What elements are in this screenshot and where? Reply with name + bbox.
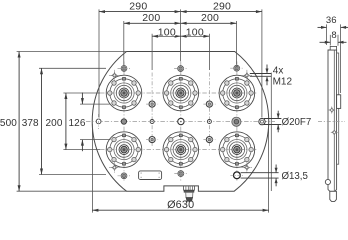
dim 290 left (99, 1, 181, 14)
boss A1 (106, 75, 142, 111)
dim diameter 20F7 (264, 111, 311, 133)
bottom tab (184, 186, 195, 201)
svg-text:4x: 4x (273, 66, 284, 77)
side view thin strip (337, 53, 339, 164)
svg-text:200: 200 (142, 12, 160, 24)
mid hole M4 (203, 137, 215, 143)
mid hole M2 (203, 101, 215, 107)
dim 8 (320, 30, 347, 46)
svg-text:Ø630: Ø630 (167, 199, 194, 211)
leader vertical line x=271.3 (270, 73, 272, 191)
gray hole under boss A3 (232, 117, 241, 126)
horizontal centerline (86, 121, 275, 123)
side view boss block (337, 95, 341, 109)
boss B1 (106, 132, 142, 168)
svg-text:100: 100 (186, 27, 204, 39)
extension line x=92.4 plate left (91, 124, 93, 213)
svg-text:Ø20F7: Ø20F7 (282, 117, 312, 128)
M12 hole S2 (241, 70, 252, 81)
boss column centerline x=124 (123, 62, 125, 182)
side view body (328, 50, 337, 191)
svg-text:378: 378 (22, 118, 39, 129)
svg-text:36: 36 (326, 15, 337, 26)
svg-text:500: 500 (0, 118, 17, 129)
extension line y=104.1 (80, 103, 111, 105)
plate outline (92, 52, 269, 192)
extension line x=99 (left edge hole) (98, 9, 100, 117)
boss A3 (219, 75, 255, 111)
extension line x=268.6 plate right (268, 124, 270, 213)
dim diameter 13,5 (241, 165, 308, 187)
side view star marks (330, 108, 337, 135)
dim 200 right (181, 12, 237, 25)
dim diameter 630 (92, 199, 268, 212)
extension line y=68.3 top hole row (39, 67, 106, 69)
dim 100 right (181, 27, 210, 39)
extension line y=139.6 (80, 139, 111, 141)
side view bottom tab (330, 191, 337, 201)
boss column centerline x=180.8 (180, 62, 182, 182)
mid hole M3 (146, 137, 158, 143)
side view top tongue (330, 46, 336, 50)
small hole x209 (207, 120, 211, 124)
center hole under boss A1 (121, 119, 126, 124)
side view edge hole (325, 179, 330, 184)
extension line y=174.5 bottom hole row (39, 174, 106, 176)
dim 500 (0, 52, 21, 192)
top hole T2 (174, 66, 187, 72)
dim 100 left (152, 27, 181, 39)
boss B3 (219, 132, 255, 168)
dim 36 (318, 15, 348, 93)
boss column centerline x=236.9 (236, 62, 238, 182)
extension line x=152.1 (mid col L) (151, 34, 153, 70)
boss A2 (163, 75, 199, 111)
top hole T3 (230, 65, 243, 71)
center hole under boss A2 (178, 118, 184, 124)
mid hole M1 (146, 101, 158, 107)
small hole x152 (150, 120, 154, 124)
extension line y=149.6 boss row 2 (63, 149, 100, 151)
dim 378 (22, 68, 43, 174)
svg-text:200: 200 (46, 118, 63, 129)
extension line x=261.9 (dowel hole) (261, 9, 263, 117)
extension line x=123.8 (boss col 1) (123, 21, 125, 65)
bottom hole B1 (118, 173, 131, 179)
center tick line (180, 9, 182, 61)
boss row centerline bottom (100, 149, 258, 151)
dim 126 (outside arrows) (69, 93, 86, 152)
extension line x=236.5 (boss col 3) (236, 21, 238, 65)
mid column centerline x=209.4 (208, 73, 210, 147)
top hole T1 (118, 66, 131, 72)
dowel hole right (Ø20F7) (259, 118, 265, 124)
M12 hole S1 (109, 70, 120, 81)
left edge hole (96, 114, 101, 129)
bottom hole B3 (230, 172, 243, 179)
extension line y=93 boss row 1 (63, 92, 100, 94)
boss B2 (163, 132, 199, 168)
side view centerline (318, 121, 345, 123)
dim 4x M12 (250, 65, 293, 88)
extension line y=191.2 bottom flat (17, 190, 127, 192)
dim 290 right (181, 1, 262, 14)
extension line y=51.5 top flat (17, 51, 127, 53)
M12 hole S3 (109, 162, 120, 173)
mid column centerline x=152.1 (151, 73, 153, 147)
boss row centerline top (100, 92, 258, 94)
bottom hole B2 (174, 171, 187, 177)
svg-text:8: 8 (331, 30, 336, 41)
svg-text:290: 290 (213, 1, 231, 13)
extension line x=209.4 (mid col R) (208, 34, 210, 70)
label slot (139, 171, 162, 180)
svg-text:100: 100 (158, 27, 176, 39)
svg-text:126: 126 (69, 118, 86, 129)
svg-text:Ø13,5: Ø13,5 (282, 171, 308, 182)
M12 hole S4 (241, 162, 252, 173)
svg-text:290: 290 (129, 1, 147, 13)
svg-text:200: 200 (201, 12, 219, 24)
svg-text:M12: M12 (273, 77, 293, 88)
dim 200 vertical (46, 93, 68, 150)
dim 200 left (124, 12, 181, 25)
